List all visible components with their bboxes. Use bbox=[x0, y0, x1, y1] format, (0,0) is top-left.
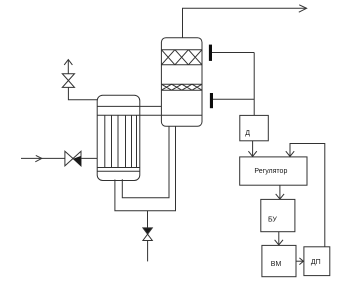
wire: junction to sensor box bbox=[253, 53, 255, 116]
pipe: U-bend inner wall bbox=[122, 126, 169, 197]
wire: regulator to BU bbox=[279, 185, 281, 199]
arrowhead into DP bbox=[299, 258, 303, 265]
wire: VM to DP bbox=[296, 260, 303, 262]
exchanger bottom tube sheet lines bbox=[97, 167, 140, 169]
heat exchanger E1 shell bbox=[97, 95, 140, 180]
valve V3 (drain valve, top half filled) bbox=[143, 228, 152, 234]
wire: drain stem bbox=[147, 211, 149, 228]
wire: feedback from DP to regulator bbox=[290, 144, 325, 247]
svg-text:Д: Д bbox=[245, 130, 250, 137]
nozzle N2 (lower sensor tap) bbox=[210, 93, 213, 108]
exchanger top tube sheet lines bbox=[97, 105, 161, 107]
wire: drain outlet bbox=[147, 241, 149, 262]
box BU (control unit) bbox=[261, 199, 295, 231]
arrowhead into regulator from D bbox=[248, 151, 256, 156]
wire: N1 to junction bbox=[212, 52, 254, 54]
pipe: U-bend outer wall bbox=[115, 126, 176, 210]
box VM (actuator) bbox=[262, 245, 296, 276]
exchanger tubes bbox=[104, 115, 106, 167]
arrowhead into VM bbox=[275, 240, 283, 245]
wire: overhead vapour line bbox=[183, 8, 307, 37]
valve V1 (feed valve, right half filled) bbox=[65, 151, 73, 166]
arrowhead: feed flow direction bbox=[35, 155, 42, 161]
arrowhead into regulator from feedback bbox=[286, 151, 294, 156]
arrowhead into BU bbox=[276, 194, 284, 199]
svg-text:ДП: ДП bbox=[311, 259, 321, 266]
svg-text:БУ: БУ bbox=[268, 216, 277, 223]
wire: N2 to junction bbox=[213, 98, 254, 100]
box DP (position sensor) bbox=[304, 247, 330, 276]
wire: feed inlet line bbox=[21, 157, 97, 159]
column packing band 1 cross-hatch bbox=[161, 50, 202, 65]
column K1 shell bbox=[161, 38, 202, 127]
arrowhead: overhead outlet bbox=[299, 5, 307, 12]
svg-text:ВМ: ВМ bbox=[271, 261, 282, 268]
box D (sensor) bbox=[240, 115, 268, 140]
column packing band 2 cross-hatch bbox=[161, 84, 202, 90]
column packing band 2 borders bbox=[161, 83, 202, 85]
wire: vent valve to exchanger bbox=[68, 87, 97, 99]
box Regulator bbox=[240, 157, 307, 185]
column packing band 1 borders bbox=[161, 49, 202, 51]
nozzle N1 (upper sensor tap) bbox=[209, 45, 212, 61]
valve V2 (vent valve, top-left) bbox=[67, 60, 69, 74]
wire: BU to VM bbox=[278, 232, 280, 245]
wire: D to regulator bbox=[252, 141, 254, 157]
svg-text:Регулятор: Регулятор bbox=[254, 168, 287, 175]
